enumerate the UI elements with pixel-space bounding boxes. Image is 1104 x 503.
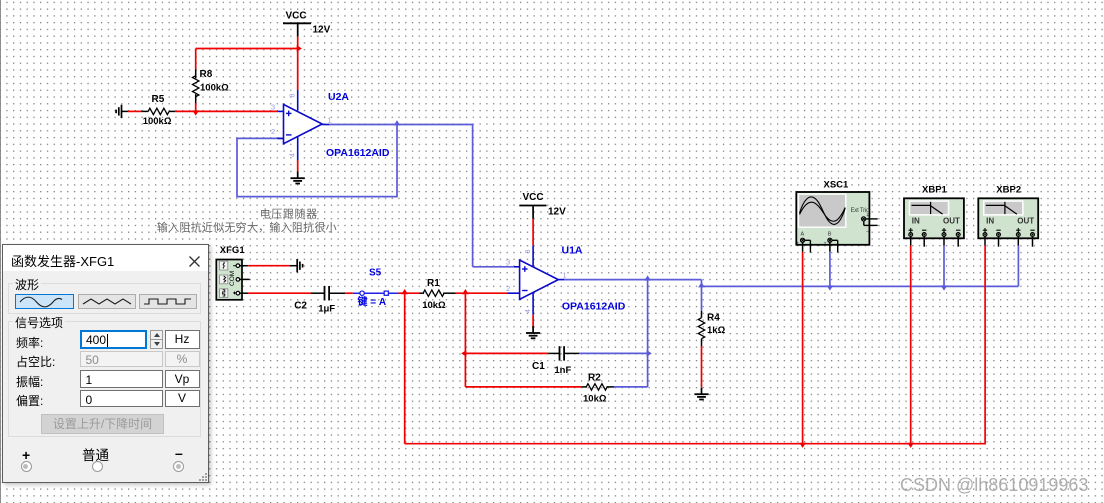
wire XSC1 A (red) xyxy=(802,252,804,444)
svg-text:+: + xyxy=(866,213,869,218)
svg-text:S5: S5 xyxy=(369,268,382,279)
svg-text:+: + xyxy=(797,241,800,246)
wire output jog down to bus xyxy=(701,280,703,287)
XBP1 pin _ xyxy=(922,229,926,231)
canvas left edge line xyxy=(0,0,1,503)
waveform button square xyxy=(139,294,197,309)
XBP2 pin _ xyxy=(1030,229,1034,231)
wire R4 bottom to ground (red) xyxy=(701,339,703,346)
wire VCC to U2A supply (red) xyxy=(297,37,299,90)
svg-text:U2A: U2A xyxy=(328,91,349,103)
svg-text:电压跟随器: 电压跟随器 xyxy=(260,207,318,221)
junction output/feedback (U1A) xyxy=(644,275,651,280)
wire VCC branch to R8 (red) xyxy=(196,48,298,50)
wire U1A V- to ground (red) xyxy=(532,315,534,328)
svg-text:OPA1612AID: OPA1612AID xyxy=(326,147,390,159)
svg-text:VCC: VCC xyxy=(522,192,543,203)
svg-text:IN: IN xyxy=(912,217,920,226)
junction C1/vertical xyxy=(647,350,652,357)
junction red bus / XBP1 IN xyxy=(907,443,914,448)
terminal + label xyxy=(22,447,30,463)
svg-text:2: 2 xyxy=(271,127,275,136)
op-amp U2A xyxy=(284,104,323,143)
junction bus/R4 xyxy=(698,282,705,287)
resize grip xyxy=(198,472,207,481)
XSC1 pin B xyxy=(828,238,832,242)
wire C2 to S5 (red) xyxy=(345,292,353,294)
svg-text:R5: R5 xyxy=(152,94,165,105)
svg-text:输入阻抗近似无穷大，输入阻抗很小: 输入阻抗近似无穷大，输入阻抗很小 xyxy=(157,220,337,234)
junction C1 left xyxy=(461,350,466,357)
XBP2 pin _ xyxy=(996,229,1000,231)
svg-text:IN: IN xyxy=(986,217,994,226)
pin 4 stub (U2A V-) xyxy=(297,137,299,160)
svg-text:3: 3 xyxy=(506,258,510,267)
svg-text:10kΩ: 10kΩ xyxy=(583,394,607,405)
unit Hz xyxy=(165,330,200,349)
svg-text:XBP2: XBP2 xyxy=(996,185,1021,196)
button 设置上升/下降时间 (disabled) xyxy=(41,414,164,434)
field 频率 xyxy=(16,334,43,351)
instrument XBP2 xyxy=(978,198,1038,238)
CSDN watermark xyxy=(900,475,1088,496)
XFG1 glyph square (rotated) xyxy=(223,290,225,296)
svg-text:_: _ xyxy=(839,239,843,244)
junction blue bus / XBP1 OUT xyxy=(941,285,948,290)
wire R2 right (blue) xyxy=(614,386,648,388)
XFG1 glyph sine (rotated) xyxy=(223,262,224,268)
svg-text:VCC: VCC xyxy=(285,11,306,22)
field 偏置 xyxy=(16,392,43,409)
ground (XFG1, rotated) xyxy=(296,259,298,272)
spinner (频率) xyxy=(150,330,163,349)
XFG1 glyph triangle (rotated) xyxy=(224,276,226,282)
terminal − label xyxy=(175,445,183,461)
wire C1 right (blue) xyxy=(579,352,647,354)
unit % (disabled) xyxy=(165,351,200,367)
svg-text:3: 3 xyxy=(271,103,275,112)
junction signal tap xyxy=(401,289,408,294)
instrument XBP1 xyxy=(904,198,964,238)
svg-text:8: 8 xyxy=(290,94,297,98)
XSC1 waveform B xyxy=(800,202,846,221)
feedback vertical left (red) xyxy=(464,293,466,387)
svg-text:+: + xyxy=(824,241,827,246)
XBP2 bode curve xyxy=(986,205,1017,214)
wire XBP2 OUT (blue) xyxy=(1017,246,1019,287)
wire U2A out down to U1A pin3 (blue) xyxy=(472,124,474,267)
wire XBP1 OUT (blue) xyxy=(943,246,945,287)
terminal 普通 label xyxy=(82,444,109,464)
XBP2 pin + xyxy=(1016,229,1020,231)
terminal circle + xyxy=(21,461,32,472)
wire R8 top lead xyxy=(195,49,197,70)
wire U1A output (blue) xyxy=(558,279,565,281)
waveform button sine (selected) xyxy=(15,294,74,309)
ground (U2A) xyxy=(297,171,299,178)
XBP1 pin + xyxy=(942,229,946,231)
XFG1 waveform glyph 2 xyxy=(220,275,228,284)
XFG1 waveform glyph 1 xyxy=(220,261,228,270)
resistor R5 xyxy=(148,108,169,114)
svg-text:OUT: OUT xyxy=(943,217,960,226)
unit Vp xyxy=(165,370,200,388)
ground (input, rotated) xyxy=(121,105,123,118)
svg-text:U1A: U1A xyxy=(562,245,583,257)
svg-text:100kΩ: 100kΩ xyxy=(200,83,229,94)
wire R5 to U2A pin3 (red) xyxy=(169,110,175,112)
XBP1 bode curve xyxy=(912,205,943,214)
XBP2 screen xyxy=(983,200,1024,215)
wire VCC to U1A supply (red) xyxy=(532,219,534,246)
blue output bus xyxy=(702,285,1019,287)
unit V xyxy=(165,390,200,407)
XFG1 pin - (bottom) xyxy=(233,292,236,294)
wire XBP1 IN (red) xyxy=(910,246,912,444)
junction blue bus / XSC1 B xyxy=(827,285,834,290)
wire U2A V- to ground (red) xyxy=(297,160,299,172)
svg-text:B: B xyxy=(828,232,832,238)
XBP1 pin + xyxy=(909,229,913,231)
resistor R8 xyxy=(193,76,199,97)
field 占空比 (disabled) xyxy=(16,353,55,370)
wire XSC1 B (blue) xyxy=(829,252,831,287)
XFG1 waveform glyph 3 xyxy=(220,289,228,298)
svg-text:_: _ xyxy=(865,226,869,231)
svg-text:1: 1 xyxy=(563,271,567,280)
svg-text:XSC1: XSC1 xyxy=(824,180,850,191)
junction red bus / XSC1 A xyxy=(799,443,806,448)
wire input to R5 xyxy=(122,110,129,112)
XSC1 Ext Trig pin xyxy=(862,217,866,221)
pin 4 stub (U1A V-) xyxy=(532,293,534,315)
wire C1 left (red) xyxy=(465,352,548,354)
ground (U1A) xyxy=(532,326,534,333)
junction VCC/R8 xyxy=(297,45,302,52)
capacitor C2 xyxy=(324,286,326,300)
svg-text:COM: COM xyxy=(229,271,236,286)
svg-text:XBP1: XBP1 xyxy=(922,185,948,196)
capacitor C1 xyxy=(548,352,559,354)
svg-text:1: 1 xyxy=(328,116,332,125)
resistor R2 xyxy=(582,386,587,388)
svg-text:OPA1612AID: OPA1612AID xyxy=(562,301,626,313)
svg-text:R4: R4 xyxy=(707,312,720,323)
wire R2 left (red) xyxy=(465,386,581,388)
svg-text:12V: 12V xyxy=(548,207,566,218)
pin 8 stub (U1A supply) xyxy=(532,245,534,266)
svg-text:键 = A: 键 = A xyxy=(357,295,387,308)
group box 信号选项 xyxy=(8,321,201,437)
svg-text:1nF: 1nF xyxy=(554,365,571,376)
resistor R1 xyxy=(419,292,424,294)
XBP1 screen xyxy=(909,200,950,215)
wire U2A pin2 feedback loop (blue) xyxy=(237,125,397,197)
junction feedback/output U2A xyxy=(394,120,401,125)
wire R1 to U1A pin2 (red) xyxy=(456,292,508,294)
group box 波形 xyxy=(8,283,201,314)
svg-text:8: 8 xyxy=(525,250,532,254)
XSC1 screen xyxy=(798,193,847,228)
wire XFG1 signal to C2 (red) xyxy=(240,292,248,294)
svg-text:R1: R1 xyxy=(427,278,440,289)
svg-text:A: A xyxy=(801,232,805,238)
op-amp U1A xyxy=(520,260,559,299)
svg-text:100kΩ: 100kΩ xyxy=(143,116,172,127)
XFG1 pin COM (mid) xyxy=(236,278,240,282)
wire U2A output (blue) xyxy=(322,124,330,126)
capacitor C2 leads xyxy=(311,292,324,294)
svg-text:C1: C1 xyxy=(532,361,545,372)
junction R1/feedback xyxy=(462,289,469,294)
svg-text:_: _ xyxy=(812,239,816,244)
resistor R4 xyxy=(698,318,704,339)
XSC1 pin A xyxy=(801,238,805,242)
wire signal tap down to red bus xyxy=(404,293,406,444)
field 振幅 xyxy=(16,373,43,390)
wire XFG1 COM stub xyxy=(240,278,250,280)
ground (R4) xyxy=(701,387,703,394)
wire XFG1 top pin to ground (red) xyxy=(240,265,249,267)
terminal circle 普通 xyxy=(92,461,103,472)
XSC1 waveform A xyxy=(800,197,846,224)
svg-text:10kΩ: 10kΩ xyxy=(422,300,446,311)
svg-text:OUT: OUT xyxy=(1017,217,1034,226)
dialog close button xyxy=(189,256,200,267)
wire S5 to R1 (red) xyxy=(398,292,419,294)
svg-text:1kΩ: 1kΩ xyxy=(707,325,726,336)
svg-text:12V: 12V xyxy=(313,25,331,36)
XBP2 pin + xyxy=(983,229,987,231)
svg-text:1μF: 1μF xyxy=(318,304,335,315)
svg-text:4: 4 xyxy=(525,309,532,313)
pin 8 stub (U2A supply) xyxy=(297,90,299,111)
dialog title bar xyxy=(3,245,208,271)
svg-text:XFG1: XFG1 xyxy=(220,245,246,256)
svg-text:R2: R2 xyxy=(588,373,601,384)
junction R5/R8 xyxy=(192,110,199,115)
XFG1 pin + (top) xyxy=(233,265,236,267)
wire R8 bottom lead xyxy=(195,94,197,103)
svg-text:C2: C2 xyxy=(294,301,307,312)
waveform button triangle xyxy=(78,294,136,309)
instrument XFG1 xyxy=(216,260,242,300)
svg-text:R8: R8 xyxy=(200,69,213,80)
wire R4 top (blue) xyxy=(701,286,703,311)
XBP1 pin _ xyxy=(956,229,960,231)
feedback vertical (blue) xyxy=(647,280,649,387)
switch S5 (closed, blue) xyxy=(353,292,399,294)
svg-text:4: 4 xyxy=(290,153,297,157)
instrument XSC1 xyxy=(796,192,869,245)
red input bus (bottom) xyxy=(405,246,985,444)
terminal circle − xyxy=(173,461,184,472)
svg-text:2: 2 xyxy=(506,284,510,293)
